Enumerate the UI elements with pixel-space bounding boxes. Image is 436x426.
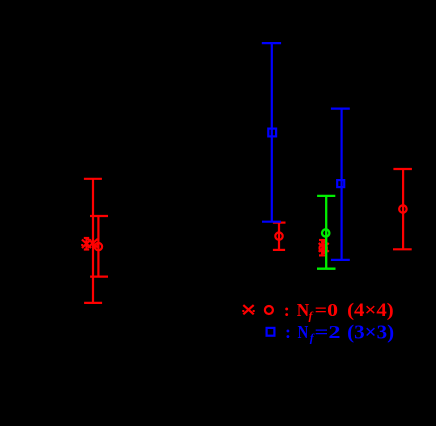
svg-text:=2: =2 — [315, 322, 341, 342]
svg-text::: : — [284, 300, 290, 320]
svg-text:N: N — [297, 300, 309, 320]
svg-text:(3×3): (3×3) — [347, 323, 394, 344]
svg-text:=0: =0 — [315, 300, 338, 320]
svg-text:(4×4): (4×4) — [347, 301, 394, 321]
svg-text::: : — [285, 322, 291, 342]
svg-text:N: N — [298, 322, 309, 342]
